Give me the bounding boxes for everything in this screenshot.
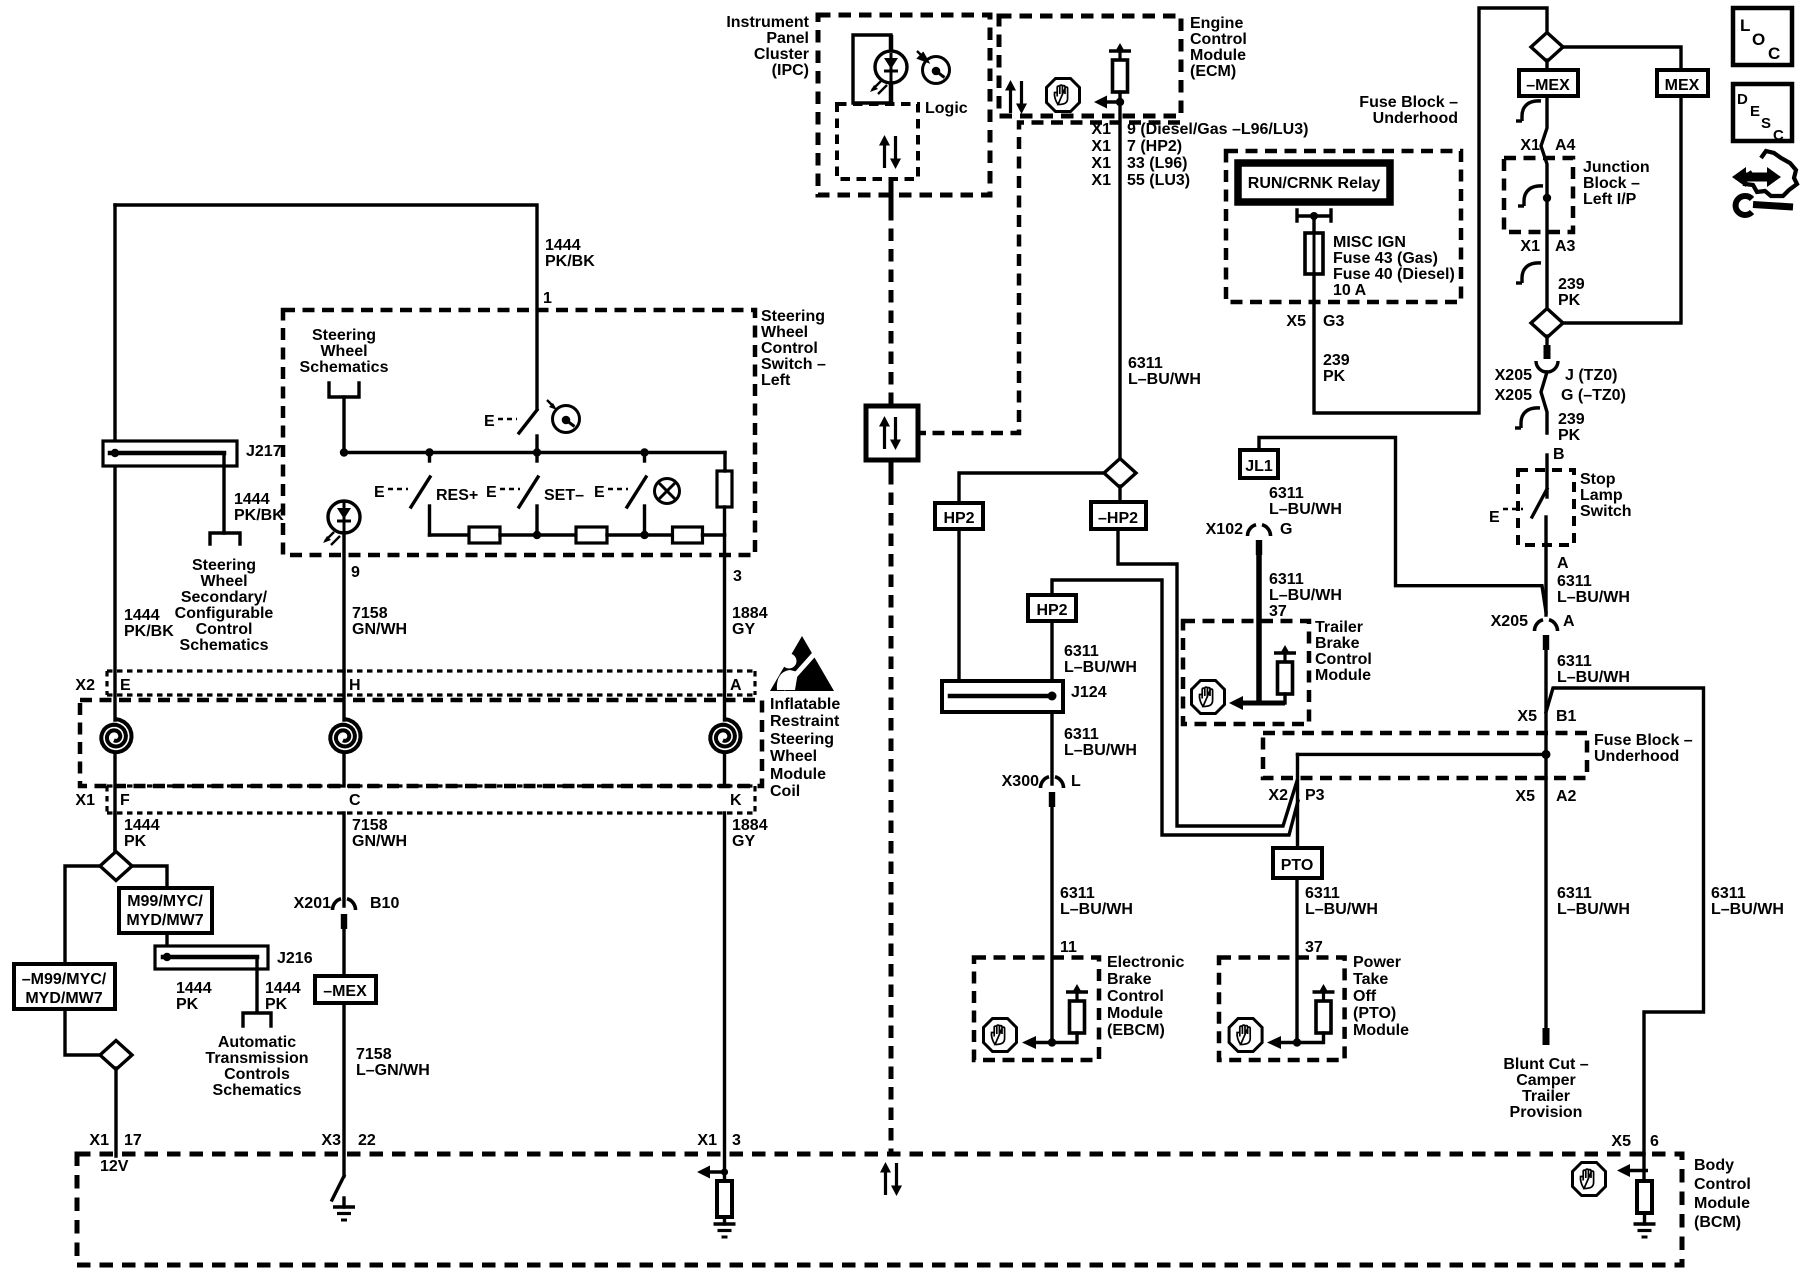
node diamond splice MEX upper: [1531, 33, 1563, 62]
label 6311 L-BU/WH (EBCM): [1060, 885, 1133, 918]
svg-text:L–BU/WH: L–BU/WH: [1305, 901, 1378, 918]
label Blunt Cut - Camper Trailer Provision: [1503, 1056, 1588, 1121]
svg-text:7158: 7158: [356, 1046, 392, 1063]
svg-text:Secondary/: Secondary/: [181, 589, 268, 606]
svg-text:Wheel: Wheel: [770, 748, 817, 765]
svg-text:Control: Control: [1315, 651, 1372, 668]
connector hook X1 A3: [1516, 263, 1541, 283]
node switch bus (top): [344, 451, 725, 454]
svg-text:Control: Control: [1694, 1176, 1751, 1193]
wire PTO to module pin 37: [1295, 878, 1298, 1043]
svg-text:L–BU/WH: L–BU/WH: [1269, 501, 1342, 518]
wire -M99 to diamond lower: [65, 1009, 100, 1055]
svg-text:Underhood: Underhood: [1594, 748, 1679, 765]
svg-text:6311: 6311: [1064, 726, 1099, 743]
svg-text:X300: X300: [1002, 773, 1039, 790]
svg-text:Fuse Block –: Fuse Block –: [1594, 732, 1693, 749]
svg-text:E: E: [1750, 103, 1760, 120]
label Engine Control Module (ECM): [1190, 15, 1247, 80]
svg-text:Control: Control: [761, 340, 818, 357]
label Power Take Off (PTO) Module: [1353, 954, 1409, 1039]
svg-text:S: S: [1761, 115, 1771, 132]
svg-text:1444: 1444: [265, 980, 301, 997]
updown arrows in ECM: [1005, 80, 1027, 114]
svg-text:Restraint: Restraint: [770, 713, 840, 730]
hand icon PTO module: [1229, 1019, 1262, 1052]
svg-text:X1: X1: [697, 1132, 717, 1149]
icon nav arrows and wrench: [1732, 151, 1797, 215]
module box Engine Control Module (ECM): [999, 16, 1181, 116]
wire X300 to EBCM pin 11: [1050, 806, 1053, 1043]
svg-text:239: 239: [1323, 352, 1350, 369]
label 6311 L-BU/WH (JL1): [1269, 485, 1342, 518]
svg-text:Wheel: Wheel: [320, 343, 367, 360]
switch S4 cancel: [594, 453, 646, 536]
label 1444 PK (right of J216 drop): [265, 980, 301, 1013]
svg-text:F: F: [120, 792, 130, 809]
svg-text:C: C: [1773, 127, 1784, 144]
svg-text:HP2: HP2: [1036, 602, 1067, 619]
svg-text:X2: X2: [75, 677, 95, 694]
svg-text:PTO: PTO: [1281, 857, 1314, 874]
icon DESC box: [1733, 84, 1792, 144]
svg-text:Engine: Engine: [1190, 15, 1243, 32]
wire fuse block internal bus: [1298, 753, 1547, 756]
wire 7158 GN/WH C to X201: [342, 813, 345, 906]
label 1444 PK/BK (left lower): [124, 607, 174, 640]
svg-text:Module: Module: [1353, 1022, 1409, 1039]
svg-text:Module: Module: [1694, 1195, 1750, 1212]
fuse MISC IGN Fuse 43/40 10A: [1305, 233, 1323, 274]
switch stop lamp: [1489, 455, 1547, 544]
label 1444 PK: [124, 817, 160, 850]
LED cruise indicator U-IPC: [870, 35, 907, 94]
switch S2 RES+: [374, 453, 430, 536]
module box Fuse Block - Underhood (lower): [1263, 733, 1587, 778]
svg-text:X1: X1: [1091, 172, 1111, 189]
wire J124 to X300: [1050, 712, 1053, 784]
module box Steering Wheel Control Switch - Left: [283, 310, 755, 555]
svg-text:Fuse Block –: Fuse Block –: [1359, 94, 1458, 111]
svg-text:3: 3: [732, 1132, 741, 1149]
svg-text:7 (HP2): 7 (HP2): [1127, 138, 1182, 155]
svg-text:JL1: JL1: [1245, 458, 1273, 475]
wire X201 to -MEX: [342, 928, 345, 976]
svg-text:D: D: [1737, 91, 1748, 108]
wire stop lamp to X205 A: [1544, 544, 1547, 615]
label 6311 L-BU/WH (X205 out): [1557, 653, 1630, 686]
option box HP2 (left): [935, 503, 983, 529]
svg-text:Camper: Camper: [1516, 1072, 1576, 1089]
svg-text:GN/WH: GN/WH: [352, 833, 407, 850]
svg-text:Control: Control: [196, 621, 253, 638]
svg-text:Module: Module: [1107, 1005, 1163, 1022]
svg-text:L–BU/WH: L–BU/WH: [1128, 371, 1201, 388]
module box Instrument Panel Cluster (IPC): [818, 15, 990, 195]
resistor internal ECM: [1109, 43, 1131, 92]
svg-text:Schematics: Schematics: [180, 637, 269, 654]
icon airbag warning triangle: [770, 636, 834, 691]
svg-text:C: C: [349, 792, 361, 809]
switch S1 cruise on/off with gauge icon: [484, 410, 537, 453]
label MISC IGN Fuse 43 (Gas) Fuse 40 (Diesel) 10 A: [1333, 234, 1455, 299]
resistor R-switch right: [717, 471, 732, 507]
svg-text:Switch –: Switch –: [761, 356, 826, 373]
wire bus corner to resistor: [723, 453, 726, 472]
icon LOC box: [1733, 8, 1792, 65]
arrow trailer brake internal (thick): [1229, 696, 1285, 710]
wire LED to pin 9: [342, 533, 345, 671]
svg-text:6311: 6311: [1557, 885, 1592, 902]
svg-text:E: E: [374, 484, 385, 501]
svg-text:Power: Power: [1353, 954, 1401, 971]
arrow BCM internal: [1617, 1164, 1648, 1177]
svg-text:X205: X205: [1495, 387, 1532, 404]
svg-text:(ECM): (ECM): [1190, 63, 1236, 80]
wire blunt cut drop: [1544, 778, 1547, 1030]
svg-text:PK/BK: PK/BK: [124, 623, 174, 640]
svg-text:L–BU/WH: L–BU/WH: [1269, 587, 1342, 604]
logic box in IPC: [837, 104, 918, 179]
svg-text:L–BU/WH: L–BU/WH: [1557, 669, 1630, 686]
svg-text:X1: X1: [1520, 238, 1540, 255]
module box Inflatable Restraint Steering Wheel Module Coil: [80, 700, 762, 786]
svg-text:(IPC): (IPC): [772, 62, 809, 79]
svg-text:17: 17: [124, 1132, 142, 1149]
svg-text:Wheel: Wheel: [200, 573, 247, 590]
label Automatic Transmission Controls Schematics: [205, 1034, 308, 1099]
svg-text:6: 6: [1650, 1133, 1659, 1150]
coil L1: [101, 719, 131, 752]
label 1444 PK/BK (top): [545, 237, 595, 270]
label Steering Wheel Control Switch - Left: [761, 308, 826, 389]
label 6311 L-BU/WH 37 (trailer brake): [1269, 571, 1342, 620]
svg-text:6311: 6311: [1060, 885, 1095, 902]
svg-text:L–BU/WH: L–BU/WH: [1064, 659, 1137, 676]
wire pin3 drop: [723, 535, 726, 671]
svg-text:X201: X201: [294, 895, 331, 912]
svg-text:7158: 7158: [352, 817, 388, 834]
switch S3 SET-: [486, 453, 538, 536]
label 1884 GY (lower): [732, 817, 768, 850]
option box -HP2: [1091, 502, 1146, 529]
connector X201 B10: [332, 899, 355, 929]
svg-text:L: L: [1740, 16, 1750, 35]
svg-text:E: E: [486, 484, 497, 501]
svg-text:L–GN/WH: L–GN/WH: [356, 1062, 430, 1079]
connector hook X1 A4: [1516, 101, 1541, 121]
wire right branch via M99 option: [132, 866, 167, 888]
label Stop Lamp Switch: [1580, 471, 1632, 520]
svg-text:Instrument: Instrument: [726, 14, 809, 31]
svg-text:L–BU/WH: L–BU/WH: [1557, 589, 1630, 606]
relay output bracket: [1297, 210, 1331, 221]
hand icon BCM: [1573, 1163, 1606, 1196]
svg-text:Trailer: Trailer: [1315, 619, 1363, 636]
svg-text:G: G: [1280, 521, 1292, 538]
svg-text:1884: 1884: [732, 817, 768, 834]
svg-text:X3: X3: [321, 1132, 341, 1149]
svg-text:Trailer: Trailer: [1522, 1088, 1570, 1105]
splice J217: [103, 441, 237, 533]
splice J216: [155, 946, 268, 1012]
svg-text:Take: Take: [1353, 971, 1388, 988]
svg-text:(BCM): (BCM): [1694, 1214, 1741, 1231]
svg-text:K: K: [730, 792, 742, 809]
svg-text:PK/BK: PK/BK: [234, 507, 284, 524]
wire left branch via -M99 option: [65, 866, 100, 964]
svg-text:(PTO): (PTO): [1353, 1005, 1396, 1022]
svg-text:6311: 6311: [1711, 885, 1746, 902]
arrow ECM internal: [1094, 96, 1124, 109]
wire resistor to junction: [1118, 92, 1121, 102]
lamp symbol circle-X: [655, 479, 680, 504]
svg-text:Left: Left: [761, 372, 791, 389]
svg-text:1444: 1444: [545, 237, 581, 254]
wire X2 P3 drop: [1296, 754, 1299, 848]
svg-text:Electronic: Electronic: [1107, 954, 1184, 971]
label 7158 L-GN/WH: [356, 1046, 430, 1079]
svg-text:37: 37: [1269, 603, 1287, 620]
svg-text:3: 3: [733, 568, 742, 585]
svg-text:X1: X1: [1091, 121, 1111, 138]
wire X205 A to fuse block junction: [1544, 649, 1547, 778]
splice J124: [942, 681, 1063, 712]
relay RUN/CRNK Relay: [1238, 163, 1390, 202]
label Body Control Module (BCM): [1694, 1157, 1751, 1231]
svg-text:6311: 6311: [1269, 571, 1304, 588]
svg-text:A2: A2: [1556, 788, 1577, 805]
resistor internal BCM (X5-6): [1637, 1181, 1652, 1213]
svg-text:(EBCM): (EBCM): [1107, 1022, 1165, 1039]
svg-text:1444: 1444: [124, 607, 160, 624]
option box -M99/MYC/MYD/MW7: [14, 964, 115, 1009]
label Fuse Block - Underhood (top): [1359, 94, 1458, 127]
svg-text:22: 22: [358, 1132, 376, 1149]
svg-text:6311: 6311: [1064, 643, 1099, 660]
svg-text:A3: A3: [1555, 238, 1576, 255]
svg-text:37: 37: [1305, 939, 1323, 956]
wire diamond to BCM pin 17: [114, 1068, 117, 1156]
svg-text:PK: PK: [1558, 427, 1581, 444]
svg-text:–MEX: –MEX: [323, 983, 367, 1000]
svg-text:11: 11: [1060, 939, 1077, 956]
svg-text:Control: Control: [1107, 988, 1164, 1005]
label 6311 L-BU/WH (stop lamp out): [1557, 573, 1630, 606]
wire 1884 GY K to BCM X1 3: [723, 813, 726, 1181]
svg-text:1: 1: [543, 290, 552, 307]
svg-text:1444: 1444: [124, 817, 160, 834]
svg-text:X1: X1: [89, 1132, 109, 1149]
svg-text:1444: 1444: [234, 491, 270, 508]
label 1444 PK (left of J216 drop): [176, 980, 212, 1013]
label 239 PK (fuse): [1323, 352, 1350, 385]
wire -HP2 to X2 P3 (route A): [1118, 529, 1297, 826]
svg-text:X1: X1: [1520, 137, 1540, 154]
svg-text:Cluster: Cluster: [754, 46, 809, 63]
svg-text:Automatic: Automatic: [218, 1034, 296, 1051]
svg-text:MYD/MW7: MYD/MW7: [126, 912, 203, 929]
wire resistor to bottom bus: [723, 507, 726, 535]
stub from steering wheel schematics: [329, 383, 359, 397]
label 1884 GY (top): [732, 605, 768, 638]
blunt cut terminal: [1543, 1028, 1550, 1045]
svg-text:MISC IGN: MISC IGN: [1333, 234, 1406, 251]
wire logic box to IPC edge: [889, 179, 894, 208]
indicator frame in IPC: [853, 35, 891, 103]
label 6311 L-BU/WH (ECM drop): [1128, 355, 1201, 388]
svg-text:PK: PK: [1323, 368, 1346, 385]
connector hook X205: [1515, 408, 1540, 428]
svg-text:Steering: Steering: [312, 327, 376, 344]
wire HP2 mid to X2 P3 (route B): [1052, 580, 1298, 835]
svg-text:B: B: [1553, 446, 1565, 463]
svg-text:9: 9: [351, 564, 360, 581]
connector X102 G: [1247, 525, 1270, 555]
module box Electronic Brake Control Module (EBCM): [974, 958, 1099, 1061]
svg-text:Controls: Controls: [224, 1066, 290, 1083]
wire X102 to trailer brake (thick): [1256, 554, 1262, 703]
svg-text:X5: X5: [1517, 708, 1537, 725]
svg-text:X102: X102: [1206, 521, 1243, 538]
option box M99/MYC/MYD/MW7: [119, 888, 212, 933]
node diamond splice HP2: [1104, 459, 1136, 488]
wire M99 to J216: [165, 933, 168, 961]
node diamond splice upper: [100, 852, 132, 881]
label 6311 L-BU/WH (blunt cut): [1557, 885, 1630, 918]
module box Junction Block - Left I/P: [1504, 158, 1573, 232]
svg-text:6311: 6311: [1557, 573, 1592, 590]
connector row X1 (coil): [107, 786, 755, 813]
wire schematics stub to bus: [342, 397, 345, 453]
wire LED to logic box: [889, 83, 894, 104]
label Inflatable Restraint Steering Wheel Module Coil: [770, 696, 840, 800]
svg-text:Steering: Steering: [192, 557, 256, 574]
connector X300 L: [1040, 777, 1063, 807]
wire diamond to -MEX: [1545, 60, 1548, 70]
icon speedometer (IPC): [917, 51, 950, 84]
svg-text:MEX: MEX: [1665, 77, 1700, 94]
label Fuse Block - Underhood (lower): [1594, 732, 1693, 765]
arrow internal BCM to left: [697, 1166, 728, 1179]
svg-text:Steering: Steering: [761, 308, 825, 325]
resistor internal BCM (X1-3): [717, 1181, 732, 1217]
svg-text:X205: X205: [1491, 613, 1528, 630]
svg-text:Module: Module: [1315, 667, 1371, 684]
module box Fuse Block - Underhood (top): [1226, 151, 1461, 302]
svg-text:X5: X5: [1611, 1133, 1631, 1150]
dashed link IPC to BCM (upper): [889, 208, 894, 398]
svg-text:6311: 6311: [1305, 885, 1340, 902]
coil L2: [330, 719, 360, 752]
option box -MEX (right): [1519, 70, 1578, 96]
svg-text:C: C: [1768, 44, 1780, 63]
svg-text:Coil: Coil: [770, 783, 800, 800]
svg-text:Control: Control: [1190, 31, 1247, 48]
wire 1444 PK/BK top loop from IPC feed: [115, 205, 537, 409]
svg-text:E: E: [594, 484, 605, 501]
label 6311 L-BU/WH (right branch): [1711, 885, 1784, 918]
svg-text:X1: X1: [1091, 138, 1111, 155]
svg-text:A: A: [730, 677, 742, 694]
svg-text:Steering: Steering: [770, 731, 834, 748]
svg-text:G3: G3: [1323, 313, 1344, 330]
dashed link IPC to BCM (lower): [889, 472, 894, 1154]
wire stubs serial data box: [889, 396, 894, 406]
wire HP2 left to J124: [957, 529, 960, 696]
module box Body Control Module (BCM): [77, 1154, 1682, 1265]
wire into BCM X5 6: [1642, 1154, 1645, 1181]
arrow EBCM internal: [1022, 1036, 1077, 1049]
option box JL1: [1240, 450, 1278, 478]
label 6311 L-BU/WH (above J124): [1064, 643, 1137, 676]
svg-text:A: A: [1557, 555, 1569, 572]
LED backlight lamp in switch: [323, 501, 360, 545]
svg-text:G (–TZ0): G (–TZ0): [1561, 387, 1626, 404]
hand icon trailer brake: [1192, 681, 1225, 714]
option box -MEX: [315, 976, 376, 1003]
svg-text:L–BU/WH: L–BU/WH: [1064, 742, 1137, 759]
label Steering Wheel Schematics: [300, 327, 389, 376]
label 239 PK (to stop lamp): [1558, 411, 1585, 444]
svg-text:–HP2: –HP2: [1098, 510, 1138, 527]
svg-text:E: E: [120, 677, 131, 694]
hand icon U-ECM: [1047, 79, 1080, 112]
svg-text:6311: 6311: [1269, 485, 1304, 502]
node diamond splice lower: [100, 1041, 132, 1070]
svg-text:1444: 1444: [176, 980, 212, 997]
updown arrows in BCM (serial data): [880, 1162, 902, 1196]
label 239 PK (junction): [1558, 276, 1585, 309]
label 1444 PK/BK (J217 drop): [234, 491, 284, 524]
svg-text:J217: J217: [246, 443, 282, 460]
svg-text:GY: GY: [732, 621, 755, 638]
svg-text:X5: X5: [1286, 313, 1306, 330]
svg-text:Switch: Switch: [1580, 503, 1632, 520]
wire 6311 L-BU/WH from ECM: [1118, 102, 1121, 461]
wire 239 PK fuse to junction loop: [1314, 8, 1547, 413]
svg-text:Provision: Provision: [1510, 1104, 1583, 1121]
svg-text:Module: Module: [770, 766, 826, 783]
svg-text:Body: Body: [1694, 1157, 1734, 1174]
svg-text:Junction: Junction: [1583, 159, 1650, 176]
svg-text:10 A: 10 A: [1333, 282, 1367, 299]
label 7158 GN/WH (mid): [352, 817, 407, 850]
svg-text:X1: X1: [75, 792, 95, 809]
pin labels X1 9/7/33/55: [1091, 121, 1111, 189]
wire diamond to HP2 left: [959, 473, 1104, 503]
wire -MEX to BCM X3 22: [342, 1003, 345, 1176]
connector hook in junction block: [1518, 186, 1543, 206]
label 7158 GN/WH (top): [352, 605, 407, 638]
svg-text:1884: 1884: [732, 605, 768, 622]
svg-text:GN/WH: GN/WH: [352, 621, 407, 638]
svg-text:PK: PK: [1558, 292, 1581, 309]
svg-text:E: E: [484, 413, 495, 430]
svg-text:9 (Diesel/Gas –L96/LU3): 9 (Diesel/Gas –L96/LU3): [1127, 121, 1308, 138]
svg-text:Panel: Panel: [766, 30, 809, 47]
wire branch to BCM via right side: [1546, 688, 1704, 1154]
svg-text:M99/MYC/: M99/MYC/: [127, 893, 203, 910]
svg-text:–MEX: –MEX: [1526, 77, 1570, 94]
ECM connector face dashed outline: [926, 123, 1180, 434]
svg-text:Configurable: Configurable: [175, 605, 274, 622]
svg-text:–M99/MYC/: –M99/MYC/: [22, 971, 107, 988]
connector row X2: [107, 671, 755, 695]
svg-text:O: O: [1752, 30, 1765, 49]
svg-text:Inflatable: Inflatable: [770, 696, 840, 713]
svg-text:J (TZ0): J (TZ0): [1565, 367, 1617, 384]
